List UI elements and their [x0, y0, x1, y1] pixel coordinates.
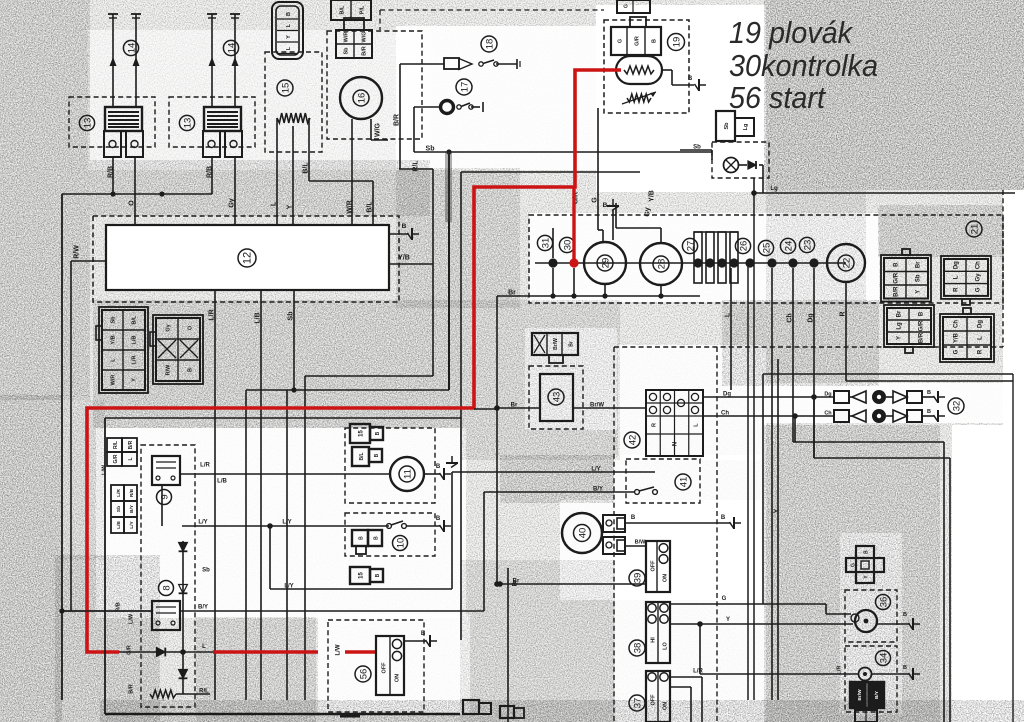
svg-text:B/Y: B/Y — [593, 487, 603, 493]
svg-text:L/B: L/B — [116, 521, 122, 529]
svg-text:L/B: L/B — [255, 312, 262, 323]
svg-text:Ch: Ch — [721, 411, 729, 417]
svg-text:41: 41 — [678, 477, 689, 488]
svg-text:Sb: Sb — [426, 146, 435, 153]
svg-text:L/R: L/R — [132, 356, 138, 365]
svg-text:B: B — [359, 536, 365, 540]
svg-text:Ch: Ch — [976, 261, 982, 269]
svg-text:27: 27 — [685, 241, 696, 252]
svg-text:B/Y: B/Y — [129, 504, 135, 513]
svg-text:B: B — [402, 223, 407, 230]
svg-text:P/L: P/L — [360, 5, 366, 14]
svg-text:Sb: Sb — [693, 145, 701, 151]
svg-text:B: B — [688, 76, 693, 82]
svg-text:R: R — [978, 349, 984, 354]
svg-text:G: G — [722, 596, 727, 602]
svg-text:R/L: R/L — [413, 160, 420, 172]
svg-text:25: 25 — [761, 243, 772, 254]
svg-text:Y: Y — [286, 35, 292, 39]
svg-text:B: B — [903, 665, 907, 671]
svg-text:L/Y: L/Y — [591, 467, 600, 473]
svg-text:R: R — [840, 311, 847, 316]
svg-text:23: 23 — [802, 240, 813, 251]
svg-text:L/Y: L/Y — [129, 520, 135, 528]
svg-text:B: B — [919, 311, 925, 316]
svg-text:9: 9 — [159, 494, 170, 499]
svg-text:Sb: Sb — [724, 122, 730, 130]
svg-text:OFF: OFF — [651, 694, 657, 706]
svg-text:G/R: G/R — [127, 645, 133, 655]
svg-text:B: B — [903, 612, 907, 618]
svg-text:29: 29 — [600, 258, 611, 269]
svg-text:Y/B: Y/B — [649, 190, 656, 202]
svg-text:17: 17 — [459, 82, 470, 93]
svg-text:Gy: Gy — [229, 198, 236, 207]
svg-text:B: B — [436, 464, 441, 470]
svg-text:38: 38 — [632, 643, 643, 654]
svg-text:22: 22 — [841, 258, 852, 269]
svg-text:L/B: L/B — [132, 336, 138, 345]
svg-text:G/R: G/R — [919, 320, 925, 331]
svg-text:14: 14 — [226, 43, 237, 54]
svg-text:32: 32 — [951, 401, 962, 412]
svg-text:24: 24 — [783, 241, 794, 252]
svg-text:B/R: B/R — [394, 114, 401, 126]
svg-text:39: 39 — [632, 573, 643, 584]
svg-text:18: 18 — [484, 39, 495, 50]
svg-text:R/B: R/B — [129, 488, 135, 497]
svg-text:Y: Y — [916, 290, 922, 294]
svg-text:14: 14 — [126, 43, 137, 54]
svg-text:21: 21 — [969, 224, 980, 235]
svg-text:L: L — [271, 201, 278, 206]
svg-text:Br: Br — [511, 403, 518, 409]
svg-text:B/L: B/L — [340, 5, 346, 15]
svg-text:B/R: B/R — [919, 332, 925, 343]
svg-text:Ch: Ch — [787, 313, 794, 322]
svg-text:L/Y: L/Y — [284, 584, 293, 590]
svg-text:L: L — [725, 312, 732, 317]
svg-text:B: B — [375, 573, 381, 577]
svg-text:Dg: Dg — [723, 392, 731, 398]
svg-text:16: 16 — [356, 93, 367, 104]
svg-text:Ch: Ch — [954, 320, 960, 328]
svg-text:L/W: L/W — [129, 613, 135, 624]
svg-text:R/B: R/B — [207, 166, 214, 178]
svg-text:W/G: W/G — [362, 32, 368, 43]
svg-text:Sb: Sb — [288, 312, 295, 321]
svg-text:56 start: 56 start — [729, 80, 826, 115]
svg-text:B: B — [652, 39, 658, 43]
svg-text:Ch: Ch — [824, 411, 832, 417]
svg-text:B/W: B/W — [635, 540, 647, 546]
svg-text:Sb: Sb — [916, 274, 922, 282]
svg-text:43: 43 — [551, 392, 562, 403]
svg-text:Dg: Dg — [954, 261, 960, 269]
svg-text:B/R: B/R — [362, 46, 368, 56]
svg-text:OFF: OFF — [651, 560, 657, 572]
svg-text:L/R: L/R — [693, 669, 703, 675]
svg-text:15: 15 — [280, 83, 291, 94]
svg-text:B/L: B/L — [359, 452, 365, 460]
svg-text:B: B — [188, 368, 194, 372]
svg-text:15: 15 — [359, 572, 365, 579]
svg-text:L: L — [202, 644, 206, 650]
svg-text:42: 42 — [627, 435, 638, 446]
svg-text:Sb: Sb — [344, 47, 350, 55]
svg-text:G: G — [624, 4, 630, 8]
svg-text:Sb: Sb — [202, 568, 210, 574]
svg-text:L/W: L/W — [336, 644, 342, 655]
svg-text:B/R: B/R — [894, 286, 900, 297]
svg-text:30kontrolka: 30kontrolka — [729, 48, 878, 83]
svg-text:B: B — [375, 431, 381, 435]
svg-text:B/Y: B/Y — [874, 690, 880, 699]
svg-text:Br: Br — [897, 310, 903, 317]
svg-text:Br/W: Br/W — [857, 689, 863, 701]
svg-text:W/R: W/R — [344, 32, 350, 43]
svg-text:Gy: Gy — [976, 273, 982, 282]
svg-text:Dg: Dg — [978, 320, 984, 328]
svg-text:Lg: Lg — [897, 322, 903, 330]
svg-text:R/W: R/W — [166, 364, 172, 376]
svg-text:Gy: Gy — [166, 323, 172, 331]
svg-text:W/R: W/R — [111, 375, 117, 386]
svg-text:Sb: Sb — [111, 316, 117, 324]
svg-text:R/L: R/L — [199, 689, 209, 695]
svg-text:L/Y: L/Y — [282, 520, 291, 526]
svg-text:Dg: Dg — [808, 313, 815, 322]
svg-text:R/W: R/W — [74, 245, 81, 259]
svg-text:B: B — [631, 515, 636, 521]
svg-text:ON: ON — [663, 702, 669, 710]
svg-text:L: L — [128, 457, 134, 460]
svg-text:Y/B: Y/B — [398, 255, 410, 262]
svg-text:Br: Br — [569, 341, 575, 347]
svg-text:Br: Br — [916, 261, 922, 268]
svg-text:Lg: Lg — [743, 124, 749, 131]
svg-text:10: 10 — [395, 538, 406, 549]
svg-text:Y: Y — [726, 617, 730, 623]
svg-text:G: G — [592, 197, 599, 203]
svg-text:11: 11 — [402, 469, 413, 479]
svg-text:26: 26 — [738, 241, 749, 252]
svg-text:40: 40 — [577, 528, 588, 539]
svg-text:15: 15 — [359, 430, 365, 437]
svg-text:Dg: Dg — [824, 392, 831, 398]
svg-text:Lg: Lg — [770, 186, 778, 192]
svg-text:B/L: B/L — [303, 162, 310, 174]
svg-text:L/R: L/R — [116, 489, 122, 497]
svg-text:L/B: L/B — [217, 479, 227, 485]
svg-text:Y/B: Y/B — [111, 335, 117, 344]
svg-text:B: B — [864, 550, 870, 554]
svg-text:L/R: L/R — [209, 309, 216, 320]
svg-text:28: 28 — [656, 259, 667, 270]
svg-text:R: R — [954, 287, 960, 292]
svg-text:L/Y: L/Y — [198, 520, 207, 526]
svg-text:36: 36 — [878, 597, 889, 608]
svg-text:Sb: Sb — [116, 506, 122, 512]
svg-text:Y: Y — [287, 204, 294, 209]
svg-text:L/R: L/R — [200, 463, 210, 469]
svg-text:G/R: G/R — [113, 454, 119, 463]
svg-text:G: G — [954, 349, 960, 354]
svg-text:G: G — [851, 563, 857, 567]
svg-text:R/L: R/L — [113, 441, 119, 449]
svg-text:G/R: G/R — [635, 36, 641, 46]
svg-text:B/Y: B/Y — [198, 605, 208, 611]
svg-text:B/L: B/L — [132, 315, 138, 325]
svg-text:ON: ON — [663, 574, 669, 582]
svg-text:O: O — [129, 200, 136, 206]
svg-text:12: 12 — [241, 252, 253, 264]
svg-text:19: 19 — [671, 37, 682, 48]
svg-text:B: B — [927, 390, 931, 396]
svg-text:G: G — [976, 287, 982, 292]
svg-text:19 plovák: 19 plovák — [729, 15, 853, 50]
svg-text:G: G — [618, 39, 624, 43]
svg-text:56: 56 — [358, 669, 369, 680]
svg-text:37: 37 — [632, 698, 643, 709]
svg-text:B: B — [374, 453, 380, 457]
svg-text:13: 13 — [82, 118, 93, 129]
svg-text:W/G: W/G — [375, 122, 382, 137]
svg-text:B/L: B/L — [367, 201, 374, 213]
svg-text:R/B: R/B — [108, 166, 115, 178]
svg-text:Y/B: Y/B — [954, 332, 960, 343]
svg-text:B: B — [894, 262, 900, 267]
svg-text:B: B — [286, 12, 292, 16]
svg-text:L: L — [978, 336, 984, 340]
svg-text:B: B — [927, 409, 931, 415]
svg-text:B: B — [603, 202, 608, 209]
svg-text:G/R: G/R — [894, 272, 900, 283]
svg-text:Y: Y — [897, 336, 903, 340]
svg-text:B/R: B/R — [128, 440, 134, 449]
svg-text:B: B — [721, 515, 726, 521]
svg-text:B/R: B/R — [129, 684, 135, 694]
svg-text:Y: Y — [774, 508, 781, 513]
svg-text:Br/W: Br/W — [590, 403, 604, 409]
svg-text:R/B: R/B — [116, 602, 122, 612]
svg-text:OFF: OFF — [382, 662, 388, 674]
svg-text:Br/W: Br/W — [553, 338, 559, 350]
svg-text:Br: Br — [513, 579, 520, 585]
svg-text:HI: HI — [651, 637, 657, 643]
svg-text:Br: Br — [508, 290, 516, 297]
svg-text:Gy: Gy — [645, 207, 652, 216]
svg-text:N: N — [673, 442, 679, 446]
svg-text:L: L — [954, 275, 960, 279]
svg-text:31: 31 — [540, 238, 551, 249]
svg-text:B: B — [436, 516, 441, 522]
svg-text:B: B — [421, 631, 426, 637]
svg-text:L/R: L/R — [837, 666, 843, 675]
svg-text:30: 30 — [562, 240, 573, 251]
svg-text:B: B — [374, 536, 380, 540]
svg-text:8: 8 — [161, 585, 172, 590]
svg-text:R: R — [652, 423, 658, 427]
svg-text:34: 34 — [878, 653, 889, 664]
svg-text:LO: LO — [663, 641, 669, 649]
svg-text:ON: ON — [395, 674, 401, 682]
svg-text:13: 13 — [182, 118, 193, 129]
svg-text:Y: Y — [132, 378, 138, 382]
svg-text:O: O — [188, 325, 194, 330]
